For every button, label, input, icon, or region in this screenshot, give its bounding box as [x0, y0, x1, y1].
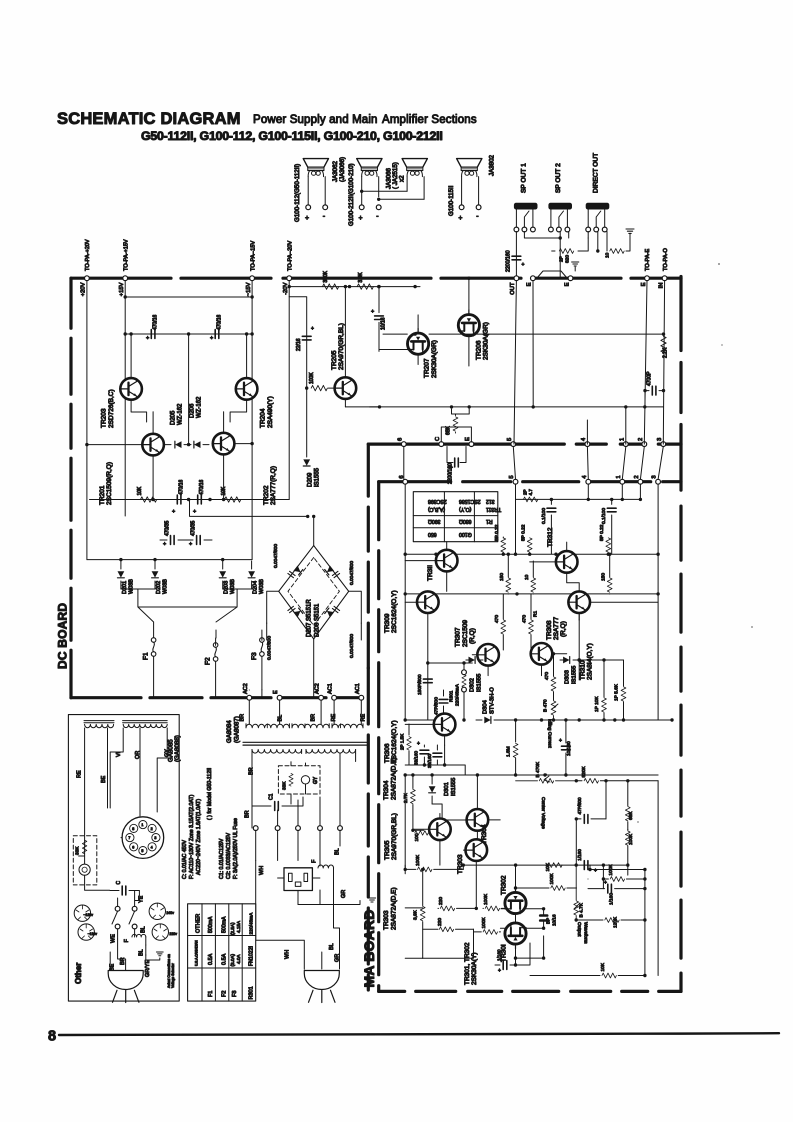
svg-text:2SC1509(R,Q): 2SC1509(R,Q)	[106, 462, 113, 505]
svg-text:2: 2	[638, 438, 644, 441]
svg-text:100K: 100K	[415, 854, 421, 866]
pot B 470K center voltage	[516, 761, 577, 829]
wire MA row 720	[510, 718, 674, 721]
svg-text:100K: 100K	[483, 893, 489, 905]
svg-text:220: 220	[438, 897, 444, 905]
svg-text:~130v: ~130v	[83, 913, 93, 917]
terminal AC row	[338, 826, 343, 831]
svg-text:SP OUT 1: SP OUT 1	[521, 163, 528, 193]
page number 8	[48, 1029, 56, 1045]
svg-text:1/160: 1/160	[609, 893, 615, 905]
wire secondary to AC row	[252, 754, 356, 829]
terminal E2 on top bus	[564, 276, 573, 287]
svg-text:4700P: 4700P	[647, 371, 653, 386]
svg-text:TR312: TR312	[547, 527, 554, 547]
svg-text:470: 470	[494, 615, 500, 623]
svg-text:B 470K: B 470K	[535, 761, 541, 778]
transformer GA8085 winding b	[123, 721, 168, 728]
svg-text:+: +	[172, 509, 175, 515]
svg-text:68K: 68K	[446, 425, 452, 435]
selector switch a	[112, 898, 120, 939]
svg-text:3: 3	[652, 475, 658, 478]
svg-text:D208 S5151: D208 S5151	[315, 603, 321, 637]
capacitor 470/35 b	[186, 520, 212, 547]
svg-text:GA8084: GA8084	[226, 720, 233, 743]
wire color BR a	[240, 714, 246, 722]
label BR sel	[118, 939, 126, 970]
svg-text:(R,Q): (R,Q)	[560, 621, 567, 637]
label BL 2	[329, 943, 335, 950]
note C F fuse zone	[182, 768, 213, 879]
svg-text:240v: 240v	[166, 911, 174, 915]
svg-text:8: 8	[132, 827, 134, 831]
svg-text:1P 5.6K: 1P 5.6K	[614, 683, 620, 701]
ground at bus E	[572, 262, 579, 271]
wire speakers 2-3 series connection	[360, 190, 424, 201]
svg-text:150P/500: 150P/500	[417, 674, 423, 695]
wire mid horizontal 334	[383, 332, 665, 335]
svg-text:0.0047/500: 0.0047/500	[349, 561, 355, 585]
capacitor BP 10/16	[540, 909, 556, 928]
svg-text:650: 650	[428, 531, 437, 537]
resistor 100K base TR205	[305, 372, 335, 391]
svg-text:1: 1	[616, 475, 622, 478]
svg-text:SCHEMATIC DIAGRAM: SCHEMATIC DIAGRAM	[57, 110, 241, 128]
svg-text:5: 5	[509, 475, 515, 478]
wire regulator lower row	[90, 498, 290, 501]
svg-text:33K: 33K	[282, 781, 288, 790]
capacitor 33/160 b	[427, 745, 442, 768]
transistor TR303 2SA872A	[457, 839, 487, 908]
resistor 1P 5.6K	[614, 660, 626, 722]
svg-text:4.15A: 4.15A	[236, 920, 241, 933]
terminal AC1 on DC board bottom	[328, 683, 337, 700]
svg-text:TR309: TR309	[384, 613, 391, 633]
svg-text:MA BOARD: MA BOARD	[361, 909, 377, 987]
svg-text:+: +	[594, 868, 597, 874]
label Other	[74, 963, 83, 984]
resistor 68K b	[625, 779, 633, 830]
wire TR310 emitter chain	[578, 613, 624, 720]
wire color BL	[278, 715, 284, 722]
svg-text:+: +	[604, 880, 607, 886]
svg-text:(A,B,C): (A,B,C)	[428, 506, 445, 512]
resistor 10 to ground	[605, 234, 631, 258]
svg-text:2SC898: 2SC898	[428, 498, 447, 504]
svg-text:5: 5	[141, 849, 143, 853]
svg-text:GR: GR	[341, 890, 347, 898]
svg-text:TR311: TR311	[486, 506, 501, 512]
svg-text:C1: C1	[269, 793, 275, 800]
label TR303 column	[383, 887, 397, 930]
svg-text:100K: 100K	[549, 872, 555, 884]
svg-text:2SK30A(GR): 2SK30A(GR)	[483, 322, 490, 360]
jumper bump over bus	[537, 271, 567, 278]
svg-text:Amplifier Sections: Amplifier Sections	[382, 114, 477, 126]
svg-text:TR307: TR307	[455, 627, 462, 647]
wire fuse outputs to edge	[267, 623, 362, 640]
resistor 10K a	[137, 486, 157, 502]
resistor 470 c	[544, 652, 556, 700]
svg-text:5: 5	[507, 438, 513, 441]
svg-text:WH: WH	[259, 866, 265, 875]
fet TR206 2SK30A	[458, 277, 489, 367]
diode D203 W03B	[219, 561, 236, 594]
svg-text:AC1: AC1	[328, 683, 334, 694]
wire selector BE	[101, 728, 108, 808]
svg-text:U.S.A.CANADIAN: U.S.A.CANADIAN	[195, 940, 199, 966]
svg-text:D302: D302	[470, 678, 476, 692]
svg-text:+: +	[163, 542, 166, 548]
label TR301 TR302 column	[464, 942, 478, 985]
terminal 6 on MA BOARD edge	[399, 475, 408, 484]
svg-text:AC2: AC2	[243, 683, 249, 694]
resistor 10K c	[530, 962, 647, 978]
resistor 470 b	[522, 594, 539, 650]
svg-text:BR: BR	[240, 714, 246, 722]
thermal fuse box (dashed)	[278, 766, 320, 794]
capacitor 1/160 c	[577, 849, 597, 874]
wire color BR c	[249, 754, 306, 807]
resistor 10K b	[221, 486, 241, 502]
svg-text:+: +	[450, 465, 453, 471]
wire mid join	[190, 500, 310, 519]
svg-text:IS1555: IS1555	[572, 666, 578, 684]
svg-text:(3.0A): (3.0A)	[230, 954, 235, 967]
transformer GA8084 secondary	[252, 750, 356, 754]
wire MA row 554	[405, 553, 658, 556]
capacitor 470/35 a	[160, 520, 186, 547]
svg-text:2SA8I4(O,Y): 2SA8I4(O,Y)	[587, 643, 594, 680]
MA BOARD outline	[379, 444, 681, 991]
bus TO-PA (top thick bus)	[71, 277, 681, 280]
svg-text:TR207: TR207	[424, 358, 431, 378]
label BE sel	[109, 952, 115, 971]
resistor 470 a	[494, 594, 506, 650]
wire AC row down	[256, 831, 340, 861]
svg-text:GY: GY	[313, 776, 319, 784]
svg-text:OTHER: OTHER	[196, 914, 202, 933]
svg-text:FN1022I: FN1022I	[248, 946, 254, 966]
svg-text:0.1/100: 0.1/100	[541, 508, 547, 524]
resistor 2P 1.5K	[400, 724, 412, 765]
svg-text:470/35: 470/35	[191, 520, 197, 536]
svg-text:C1: 0.01/AC125V: C1: 0.01/AC125V	[219, 838, 225, 879]
svg-text:R1: R1	[486, 518, 493, 524]
svg-text:220: 220	[437, 918, 443, 926]
svg-text:SP OUT 2: SP OUT 2	[555, 163, 562, 193]
resistor 100K f	[588, 864, 647, 882]
zener D205 WZ-162	[164, 403, 190, 448]
speaker G100-112 (G50-112II)	[294, 159, 329, 222]
svg-text:470/16: 470/16	[153, 314, 159, 330]
wire long 406.9	[370, 405, 664, 408]
svg-text:2SA872A(D,E): 2SA872A(D,E)	[390, 757, 397, 800]
svg-text:680Ω: 680Ω	[459, 518, 472, 524]
svg-text:+: +	[522, 262, 525, 268]
resistor 10K d	[545, 862, 562, 871]
svg-text:R1: R1	[532, 611, 538, 617]
label GR 2	[335, 954, 341, 962]
resistor 150 a	[499, 553, 511, 595]
capacitor 2200/160 on OUT wire	[506, 250, 525, 272]
svg-text:W03B: W03B	[259, 579, 265, 594]
svg-text:+: +	[189, 542, 192, 548]
svg-text:+: +	[193, 509, 196, 515]
svg-text:TR203: TR203	[101, 408, 108, 428]
svg-text:IN: IN	[658, 283, 664, 289]
note actual connections	[167, 954, 175, 988]
svg-text:TR204: TR204	[260, 408, 267, 428]
resistor 220 a	[438, 897, 477, 911]
pot 8 470 idling	[543, 699, 559, 748]
speaker G100-212II (G100-210)	[348, 159, 382, 226]
wire diode pairs join	[121, 589, 252, 638]
svg-text:TR308: TR308	[546, 620, 553, 640]
wire MA rail right	[656, 484, 659, 720]
svg-text:10/160: 10/160	[566, 741, 572, 756]
svg-text:AC220~240V Zone 1.6AT(1.0AT): AC220~240V Zone 1.6AT(1.0AT)	[196, 799, 202, 875]
terminal 6 on mid bus	[397, 438, 406, 447]
resistor 3.9K	[357, 272, 373, 290]
svg-text:BL: BL	[138, 949, 144, 956]
svg-text:WZ-162: WZ-162	[197, 396, 203, 418]
label output waveform	[576, 922, 589, 944]
svg-text:470: 470	[544, 672, 550, 680]
svg-text:0.5A: 0.5A	[208, 953, 214, 965]
svg-text:F1: F1	[208, 991, 214, 997]
svg-text:2P 1.5K: 2P 1.5K	[400, 733, 405, 750]
svg-text:2P: 2P	[523, 489, 528, 495]
svg-text:TR305: TR305	[384, 840, 391, 860]
wire TR304 area	[432, 804, 477, 850]
svg-text:10K: 10K	[221, 486, 227, 496]
svg-text:Power Supply and Main: Power Supply and Main	[253, 114, 378, 126]
svg-text:2SA970(GR,BL): 2SA970(GR,BL)	[338, 323, 345, 370]
svg-text:220v: 220v	[169, 932, 177, 936]
svg-text:2SA872A(D,E): 2SA872A(D,E)	[390, 887, 397, 930]
svg-text:1/160: 1/160	[577, 849, 582, 861]
wire GR lead	[298, 890, 376, 905]
svg-text:E: E	[564, 282, 570, 286]
wire 22/16 branch	[289, 297, 307, 457]
resistor 220 b	[423, 918, 474, 932]
svg-text:(2.5A): (2.5A)	[230, 922, 235, 935]
terminal +15V on top bus	[119, 239, 129, 296]
terminal 3 on mid bus	[657, 438, 666, 447]
svg-text:WZ-162: WZ-162	[178, 403, 184, 425]
svg-text:4.0A: 4.0A	[236, 954, 241, 964]
svg-text:47P/500: 47P/500	[434, 697, 440, 715]
svg-text:0.0047/500: 0.0047/500	[267, 636, 273, 660]
svg-text:E: E	[641, 282, 647, 286]
transistor TR309 2SC1624	[384, 590, 439, 663]
svg-text:470/16: 470/16	[199, 479, 205, 495]
wire regulator top	[125, 296, 252, 298]
wire MA mid links	[426, 620, 579, 720]
svg-text:2SD726(B,C): 2SD726(B,C)	[108, 389, 115, 428]
rotary dial 110V	[78, 924, 97, 940]
svg-text:470/35: 470/35	[165, 520, 171, 536]
terminal 5 on mid bus	[507, 438, 516, 447]
svg-text:5P 0.22: 5P 0.22	[494, 524, 500, 541]
svg-text:TO-PA--20V: TO-PA--20V	[287, 240, 293, 271]
svg-text:1: 1	[141, 823, 143, 827]
svg-text:R301: R301	[248, 986, 254, 999]
svg-text:+20V: +20V	[81, 282, 87, 296]
wire TR312 column	[587, 498, 643, 501]
capacitor 47P/500 b	[575, 797, 606, 823]
label BL b	[138, 945, 145, 956]
svg-text:2SC1624(O,Y): 2SC1624(O,Y)	[391, 720, 398, 763]
diode D303 IS1555	[560, 657, 581, 684]
wire color RE a	[331, 714, 337, 722]
speaker G100-115II	[448, 159, 482, 222]
svg-text:5P 0.22: 5P 0.22	[599, 524, 605, 541]
svg-text:+: +	[146, 336, 149, 342]
capacitor 33/160 a	[414, 741, 429, 765]
svg-text:TR302: TR302	[501, 875, 508, 895]
svg-text:BR: BR	[310, 714, 316, 722]
resistor 3.9K b	[413, 868, 426, 958]
diode D201 W03B	[118, 561, 135, 594]
wire jack outputs	[516, 232, 607, 279]
resistor 2.2K vert	[661, 336, 669, 358]
rotary dial 220V	[152, 924, 177, 940]
svg-text:TR304: TR304	[383, 780, 390, 800]
capacitor 1/160 b	[567, 880, 647, 905]
wire to plug2	[256, 868, 340, 969]
svg-text:BL: BL	[141, 926, 147, 933]
terminal E on mid bus	[465, 437, 474, 447]
svg-text:33/160: 33/160	[427, 754, 432, 768]
wire bridge connections	[267, 515, 362, 698]
wire MA row 775	[405, 773, 658, 776]
voltage selector box outline	[68, 715, 179, 1002]
svg-text:150: 150	[499, 573, 505, 581]
terminal 2 on mid bus	[638, 438, 647, 447]
svg-text:F: 3A(2.0A)/250V UL Fuse: F: 3A(2.0A)/250V UL Fuse	[233, 818, 239, 879]
fet TR207 2SK30A	[408, 315, 438, 378]
voltage selector socket	[122, 817, 164, 859]
svg-text:100K: 100K	[628, 833, 634, 845]
wire selector RE	[76, 728, 84, 856]
wire right edge top	[679, 277, 682, 445]
transistor TR306 2SC1624	[384, 713, 455, 763]
svg-text:D207 S5151R: D207 S5151R	[307, 599, 313, 637]
svg-text:220/48mA: 220/48mA	[455, 683, 461, 706]
terminal IN on top bus	[658, 248, 668, 289]
jack SP OUT 1	[514, 163, 538, 232]
diode D301 IS1555	[429, 777, 457, 804]
resistor 5P 0.22 a	[494, 524, 506, 554]
svg-text:312: 312	[486, 498, 495, 504]
label WE	[110, 934, 116, 943]
wire MA row 594	[405, 592, 658, 595]
label WH 2	[285, 950, 291, 959]
svg-text:(JA3066): (JA3066)	[339, 157, 346, 182]
wire -20V rail	[288, 281, 291, 500]
svg-text:(O,Y): (O,Y)	[459, 506, 472, 512]
svg-text:220/48mA: 220/48mA	[248, 912, 254, 935]
transistor TR203 2SD726	[101, 332, 147, 428]
terminal 5 on MA BOARD edge	[509, 475, 518, 484]
svg-text:3: 3	[154, 836, 156, 840]
wires bus1 to MA board	[404, 447, 664, 480]
DC BOARD bottom edge	[71, 696, 362, 699]
svg-text:TR206: TR206	[475, 340, 482, 360]
resistor 100K e	[625, 830, 633, 866]
svg-text:( ) for Model G50-112II: ( ) for Model G50-112II	[207, 768, 213, 820]
svg-text:IS1555: IS1555	[451, 778, 457, 796]
svg-text:2: 2	[151, 827, 153, 831]
DC BOARD left edge	[69, 278, 72, 698]
svg-text:D204: D204	[253, 581, 259, 594]
svg-text:D205: D205	[171, 410, 177, 425]
svg-text:2SC1586: 2SC1586	[459, 498, 481, 504]
terminal AC2 on DC board bottom	[243, 683, 252, 700]
svg-text:2SC1509: 2SC1509	[462, 620, 469, 647]
svg-text:0.0047/500: 0.0047/500	[273, 544, 279, 568]
terminal 1 on MA BOARD edge	[616, 475, 625, 484]
jack DIRECT OUT	[586, 153, 610, 232]
svg-text:C: C	[116, 881, 122, 885]
svg-text:500mA: 500mA	[221, 916, 227, 933]
svg-text:D203: D203	[224, 581, 230, 594]
terminal 4 on mid bus	[581, 437, 590, 447]
wire transformer taps	[267, 724, 340, 728]
transistor TR311	[405, 542, 457, 592]
svg-text:C: 0.01/AC 450V: C: 0.01/AC 450V	[182, 840, 188, 879]
capacitor 0.1/100 a	[541, 499, 556, 554]
svg-text:BE: BE	[101, 775, 107, 783]
wire +15V rail	[124, 281, 127, 516]
wire MA row 865	[405, 820, 576, 874]
wire fet gate row	[379, 349, 408, 351]
svg-text:~15V: ~15V	[246, 282, 252, 296]
rotary dial 130V	[74, 905, 93, 921]
svg-text:IS1555: IS1555	[315, 467, 321, 487]
svg-text:470/16: 470/16	[179, 479, 185, 495]
wire BL lead	[335, 842, 341, 855]
svg-text:TR301, TR302: TR301, TR302	[464, 942, 471, 985]
label GA8085 GA8088	[167, 735, 181, 762]
svg-text:+: +	[559, 738, 562, 744]
resistor 2P 820	[559, 249, 574, 263]
svg-text:Idling Current: Idling Current	[547, 719, 553, 748]
fuse coil F selector	[124, 934, 146, 945]
wire -20V feed	[289, 285, 420, 288]
svg-text:D209: D209	[308, 472, 314, 487]
wire MA rail left	[404, 484, 407, 722]
svg-text:TR310: TR310	[579, 660, 586, 680]
speaker labels JA3066 (JA2515) x2	[385, 162, 405, 189]
resistor 100K a	[404, 854, 464, 872]
svg-text:Output: Output	[576, 922, 582, 937]
svg-text:1P 10K: 1P 10K	[594, 696, 600, 712]
wire selector VI	[110, 728, 123, 808]
svg-text:5P 0.22: 5P 0.22	[520, 524, 526, 541]
wire MA cap row	[516, 498, 641, 501]
svg-text:BL: BL	[278, 715, 284, 722]
terminal AC row	[253, 826, 258, 831]
svg-text:+: +	[417, 741, 420, 747]
svg-text:TR303: TR303	[383, 910, 390, 930]
svg-text:D201: D201	[122, 581, 128, 594]
svg-text:WH: WH	[285, 950, 291, 959]
speaker 3 (second JA3066)	[402, 159, 427, 200]
capacitor 1/160 a	[495, 943, 530, 974]
